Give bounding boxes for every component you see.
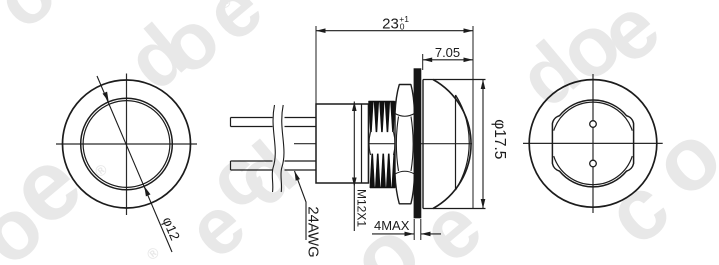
contact dot lower	[590, 160, 597, 167]
dimension 23 extension left	[315, 26, 317, 104]
thread bottom band root line	[370, 187, 395, 189]
dimension 4MAX extension right	[420, 219, 422, 240]
dimension phi17.5 line	[482, 80, 484, 209]
cap dome front arc	[433, 80, 471, 209]
dimension phi12 arrow lower	[144, 186, 150, 196]
dimension 23 line	[316, 30, 473, 32]
dimension 4MAX extension left	[413, 219, 415, 240]
rubber washer (black)	[414, 68, 422, 218]
svg-text:M12X1: M12X1	[355, 189, 369, 227]
axis center line	[294, 143, 472, 145]
cap top edge + phi17.5 top extension	[423, 79, 486, 81]
dimension 4MAX line left	[372, 233, 414, 235]
dimension M12X1 arrow top	[352, 102, 357, 112]
svg-text:24AWG: 24AWG	[305, 206, 321, 257]
cap dome inner chord	[455, 95, 457, 190]
dimension phi12 arrow upper	[103, 92, 109, 102]
outer circle right view	[529, 80, 657, 208]
svg-text:0: 0	[400, 22, 405, 32]
switch body rectangle	[316, 104, 369, 183]
svg-text:23: 23	[382, 15, 399, 32]
dimension 7.05 arrow right	[464, 58, 474, 63]
svg-text:4MAX: 4MAX	[374, 218, 410, 233]
dimension 7.05 line	[423, 59, 473, 61]
wire 1 upper	[231, 118, 317, 127]
dimension 23 arrow left	[316, 28, 326, 33]
wire 2 lower	[231, 161, 317, 170]
button head inner D-profile top arc	[554, 102, 633, 131]
bezel ring outer circle	[81, 98, 173, 190]
dimension phi17.5 arrow bottom	[481, 199, 486, 209]
thread bottom band teeth	[370, 154, 397, 188]
dimension 7.05 extension left	[422, 54, 424, 70]
wire break squiggle right	[281, 105, 284, 192]
dimension 4MAX arrow left	[405, 232, 415, 237]
dimension phi12 line	[97, 76, 172, 252]
dimension M12X1 line	[353, 102, 355, 232]
cap bottom edge + phi17.5 bottom extension	[423, 208, 486, 210]
bezel ring inner circle	[83, 101, 170, 188]
body internal step line	[361, 104, 363, 183]
centerline horizontal left view	[56, 143, 197, 145]
dimension 4MAX arrow right	[421, 232, 431, 237]
hex nut bottom chamfer boundary	[395, 171, 415, 174]
svg-text:φ17.5: φ17.5	[491, 119, 508, 159]
dimension right extension (23 and 7.05)	[472, 26, 474, 209]
hex nut silhouette	[395, 85, 415, 204]
dimension phi17.5 arrow top	[481, 80, 486, 90]
dimension 7.05 arrow left	[423, 58, 433, 63]
wire break squiggle left	[272, 105, 275, 192]
thread top band crest line	[369, 101, 395, 103]
centerline horizontal right view	[523, 142, 663, 144]
hex nut top chamfer boundary	[395, 114, 415, 117]
button head outer D-profile	[552, 100, 633, 187]
hex nut chamfer arc left	[396, 117, 398, 172]
centerline vertical right view	[592, 74, 594, 213]
thread left edge	[368, 104, 370, 183]
outer circle left view	[63, 80, 191, 208]
thread relief arc left	[369, 132, 371, 155]
dimension 4MAX line right	[421, 233, 441, 235]
centerline vertical left view	[126, 74, 128, 216]
leader 24AWG line	[295, 171, 307, 240]
leader 24AWG arrow	[295, 171, 301, 181]
contact dot upper	[590, 121, 597, 128]
hex nut chamfer arc right	[411, 117, 413, 172]
dimension M12X1 arrow bottom	[352, 178, 357, 188]
cap dome inner arc	[456, 95, 470, 190]
thread top band teeth	[369, 102, 396, 132]
button head inner D-profile bottom arc	[554, 156, 633, 185]
cap back edge	[422, 80, 424, 209]
thread relief arc right	[394, 132, 396, 155]
svg-text:7.05: 7.05	[435, 45, 460, 60]
dimension 23 arrow right	[464, 28, 474, 33]
